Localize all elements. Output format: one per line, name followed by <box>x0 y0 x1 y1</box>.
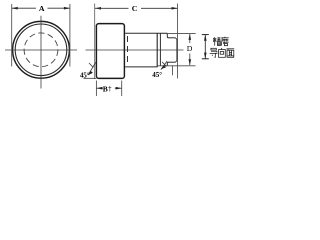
front view vertical centerline <box>40 16 42 89</box>
annotation extent bar vertical <box>204 35 206 59</box>
dimension C right arrow <box>172 7 178 10</box>
front view hidden dashed circle <box>24 33 58 67</box>
pilot end chamfer bottom <box>176 61 177 62</box>
middle cylinder top edge <box>125 32 167 34</box>
chamfer note middle cross stroke <box>162 62 166 67</box>
front view horizontal centerline <box>5 49 77 51</box>
annotation extent bar up arrow <box>204 35 207 41</box>
annotation text char mo (hand-drawn strokes) <box>221 37 229 46</box>
side view left face thin line / C left extension <box>94 4 96 80</box>
flange outline <box>96 24 124 79</box>
dimension C line <box>95 7 178 9</box>
middle cylinder bottom edge <box>125 66 158 68</box>
dimension C left arrow <box>95 7 101 10</box>
dimension B left extension line <box>95 81 97 97</box>
svg-text:C: C <box>132 4 138 13</box>
relief groove line 2 <box>159 33 161 66</box>
dimension D top extension line <box>161 32 196 34</box>
dimension D bottom extension line <box>158 65 196 67</box>
annotation text char jing (hand-drawn strokes) <box>213 37 221 46</box>
dimension D line upper part with arrow <box>189 34 191 43</box>
annotation text char mian (hand-drawn strokes) <box>227 49 235 58</box>
dimension B line <box>96 87 103 89</box>
chamfer note middle leader <box>161 61 167 70</box>
dimension A left extension line <box>11 4 13 67</box>
annotation text char dao (hand-drawn strokes) <box>210 48 218 57</box>
dimension A right extension line <box>69 4 71 67</box>
chamfer note middle leader arrowhead <box>161 65 166 69</box>
annotation text char xiang (hand-drawn strokes) <box>219 48 226 57</box>
front view rim circle <box>15 24 67 76</box>
annotation extent bar bottom tick <box>202 58 209 60</box>
chamfer note left leader arrowhead <box>88 71 93 76</box>
pilot cylinder bottom edge <box>168 61 175 63</box>
side view centerline <box>86 49 184 51</box>
dimension B right arrow <box>116 87 122 90</box>
front view outer circle <box>13 21 70 78</box>
dimension B right extension line <box>121 81 123 97</box>
annotation extent bar down arrow <box>204 53 207 59</box>
chamfer note left cross stroke <box>89 63 93 68</box>
dimension B dagger mark <box>108 86 111 92</box>
hidden dashed line right of flange face <box>127 36 129 62</box>
chamfer note left leader <box>88 62 95 74</box>
pilot cylinder top edge <box>168 37 175 39</box>
dimension B left arrow <box>96 87 102 90</box>
dimension C right extension line <box>177 4 179 79</box>
svg-text:B: B <box>103 85 108 94</box>
short vertical line below pilot end <box>172 66 174 76</box>
pilot end chamfer top <box>176 38 177 39</box>
annotation extent bar top tick <box>202 34 209 36</box>
dimension D line lower part with arrow <box>189 54 191 66</box>
shoulder face with fillets to pilot <box>167 33 168 66</box>
relief groove line 1 <box>156 33 158 67</box>
svg-text:D: D <box>187 44 193 53</box>
chamfer note left underline <box>84 77 97 79</box>
dimension A line with arrows <box>12 7 70 9</box>
svg-text:45°: 45° <box>152 71 162 79</box>
svg-text:A: A <box>39 4 45 13</box>
pilot end face <box>176 39 178 61</box>
